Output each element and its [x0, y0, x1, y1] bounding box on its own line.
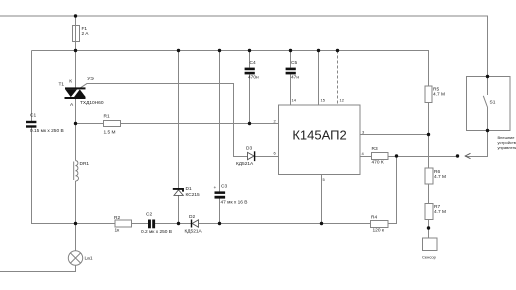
- svg-text:4.7 М: 4.7 М: [434, 209, 446, 215]
- wire D1 bottom branch: [178, 196, 180, 224]
- wire pin 15: [318, 51, 320, 106]
- node S1 top: [486, 75, 489, 78]
- svg-text:К: К: [69, 78, 72, 84]
- svg-text:D1: D1: [186, 186, 192, 192]
- wire fuse branch vertical: [75, 16, 77, 51]
- svg-text:R4: R4: [371, 214, 377, 220]
- resistor R3: [372, 153, 389, 160]
- wire R4 to pin4 junction riser: [388, 157, 397, 224]
- node R7 / sensor: [427, 226, 430, 229]
- lamp La1 circle: [68, 251, 82, 265]
- svg-text:КД521А: КД521А: [185, 229, 203, 235]
- svg-text:C2: C2: [146, 212, 152, 218]
- capacitor C1 plates: [26, 121, 36, 128]
- diode D3 symbol: [248, 151, 255, 161]
- svg-text:+: +: [214, 186, 217, 191]
- node fuse top: [74, 14, 77, 17]
- svg-text:C4: C4: [250, 60, 256, 66]
- zener diode D1 symbol: [173, 189, 184, 196]
- svg-text:управления: управления: [498, 145, 516, 150]
- IC U1 K145AP2 box: [279, 105, 361, 175]
- wire R2 to C2: [132, 223, 149, 225]
- wire lower rail left segment: [76, 223, 116, 225]
- svg-text:D2: D2: [189, 214, 195, 220]
- resistor R1: [104, 121, 121, 127]
- wire C3 bottom branch: [219, 199, 221, 224]
- node R3/R4: [395, 154, 398, 157]
- svg-text:C3: C3: [221, 184, 227, 190]
- svg-text:47н: 47н: [291, 75, 299, 81]
- switch S1 enclosure box: [467, 77, 511, 131]
- wire pin 5: [321, 175, 323, 224]
- wire R5 to R6: [428, 103, 430, 169]
- resistor R6: [425, 168, 433, 184]
- wire triac to choke: [75, 99, 77, 161]
- wire C5 top branch: [290, 51, 292, 68]
- node D1 top: [177, 49, 180, 52]
- wire switch top lead: [487, 77, 489, 96]
- wire R1 to pin 2: [121, 123, 279, 125]
- wire pin 3 to divider: [360, 134, 429, 136]
- wire supply rail: [32, 51, 429, 87]
- svg-text:2 A: 2 A: [82, 31, 90, 37]
- fuse F1: [73, 26, 80, 42]
- sensor plate box: [423, 238, 438, 251]
- lamp La1 cross: [70, 253, 80, 263]
- wire lamp bottom to left edge: [0, 266, 76, 272]
- triac gate diagonal: [80, 84, 86, 88]
- resistor R4: [371, 220, 389, 227]
- svg-text:R3: R3: [372, 146, 378, 152]
- svg-text:S1: S1: [490, 100, 496, 106]
- capacitor C3 plates: [215, 191, 226, 198]
- wire S1 to arrow: [466, 131, 488, 157]
- wire gate horizontal run: [87, 84, 248, 157]
- svg-text:УЭ: УЭ: [87, 76, 94, 82]
- wire R6 to R7: [428, 184, 430, 204]
- svg-text:R1: R1: [104, 114, 110, 120]
- wire C4 bottom to pin 2 wire: [249, 75, 251, 124]
- external control arrowhead: [465, 153, 470, 158]
- svg-text:C5: C5: [291, 60, 297, 66]
- svg-text:R2: R2: [114, 215, 120, 221]
- svg-text:D3: D3: [246, 146, 252, 152]
- wire C4 top branch: [249, 51, 251, 68]
- svg-text:1.5 М: 1.5 М: [104, 130, 116, 136]
- switch S1 blade: [483, 96, 487, 108]
- wire pin 12 dashed: [337, 51, 339, 106]
- wire D2 to R4: [199, 223, 371, 225]
- svg-text:0.15 мк х 250 В: 0.15 мк х 250 В: [30, 128, 64, 134]
- node lower rail left: [74, 222, 77, 225]
- node pin 5: [320, 222, 323, 225]
- wire C1 top branch: [31, 51, 33, 121]
- svg-text:47 мк х 16 В: 47 мк х 16 В: [221, 200, 248, 206]
- wire choke to lamp junction: [75, 181, 77, 251]
- wire D3 cathode to pin 6: [255, 156, 279, 158]
- node C4 top: [248, 49, 251, 52]
- wire triac branch: [75, 51, 77, 88]
- wire R3 to external control node: [388, 156, 458, 158]
- svg-text:C1: C1: [30, 113, 36, 119]
- capacitor C5 plates: [286, 68, 296, 75]
- svg-text:La1: La1: [85, 256, 93, 262]
- svg-text:T1: T1: [59, 81, 65, 87]
- resistor R2: [115, 220, 132, 227]
- node C3 bottom: [218, 222, 221, 225]
- svg-text:0.2 мк х 250 В: 0.2 мк х 250 В: [141, 229, 172, 235]
- node C4 bottom / pin2: [248, 122, 251, 125]
- wire switch bottom lead: [487, 108, 489, 131]
- wire top mains rail: [0, 16, 488, 77]
- node D1 bottom: [177, 222, 180, 225]
- svg-text:470н: 470н: [248, 75, 259, 81]
- svg-text:120 к: 120 к: [373, 228, 385, 234]
- node external control: [456, 154, 459, 157]
- wire pin 4 to R3: [360, 156, 372, 158]
- triac T1 symbol: [65, 87, 86, 99]
- svg-text:КД521А: КД521А: [236, 161, 254, 167]
- capacitor C2 plates: [148, 220, 155, 229]
- wire C1 bottom to lower rail: [32, 128, 76, 224]
- wire C3 top branch: [219, 51, 221, 192]
- svg-text:DR1: DR1: [80, 161, 90, 167]
- node C5 top: [289, 49, 292, 52]
- node triac anode / R1: [74, 122, 77, 125]
- capacitor C4 plates: [245, 68, 255, 75]
- svg-text:4.7 М: 4.7 М: [434, 174, 446, 180]
- svg-text:12: 12: [340, 97, 345, 102]
- wire D1 top branch: [178, 51, 180, 189]
- svg-text:4.7 М: 4.7 М: [433, 91, 445, 97]
- svg-text:470 К: 470 К: [372, 160, 384, 166]
- node pin15 top: [317, 49, 320, 52]
- node pin 3 / divider: [427, 133, 430, 136]
- svg-text:К145АП2: К145АП2: [292, 128, 346, 143]
- wire C5 to pin 14: [290, 75, 292, 106]
- wire C2 to D2: [155, 223, 191, 225]
- svg-text:ТХД10Н60: ТХД10Н60: [80, 100, 104, 106]
- wire R7 to sensor: [428, 220, 430, 239]
- svg-text:КС215: КС215: [186, 192, 201, 198]
- diode D2 symbol: [192, 220, 199, 228]
- node pin12 top: [336, 49, 339, 52]
- resistor R7: [425, 204, 433, 220]
- choke DR1: [74, 161, 79, 182]
- node S1 bottom: [486, 129, 489, 132]
- svg-text:15: 15: [321, 97, 326, 102]
- resistor R5: [425, 86, 432, 103]
- node C3 top: [218, 49, 221, 52]
- wire junction to R1: [76, 123, 104, 125]
- svg-text:Сенсор: Сенсор: [422, 255, 437, 260]
- node fuse bottom / supply rail: [74, 49, 77, 52]
- svg-text:14: 14: [292, 97, 297, 102]
